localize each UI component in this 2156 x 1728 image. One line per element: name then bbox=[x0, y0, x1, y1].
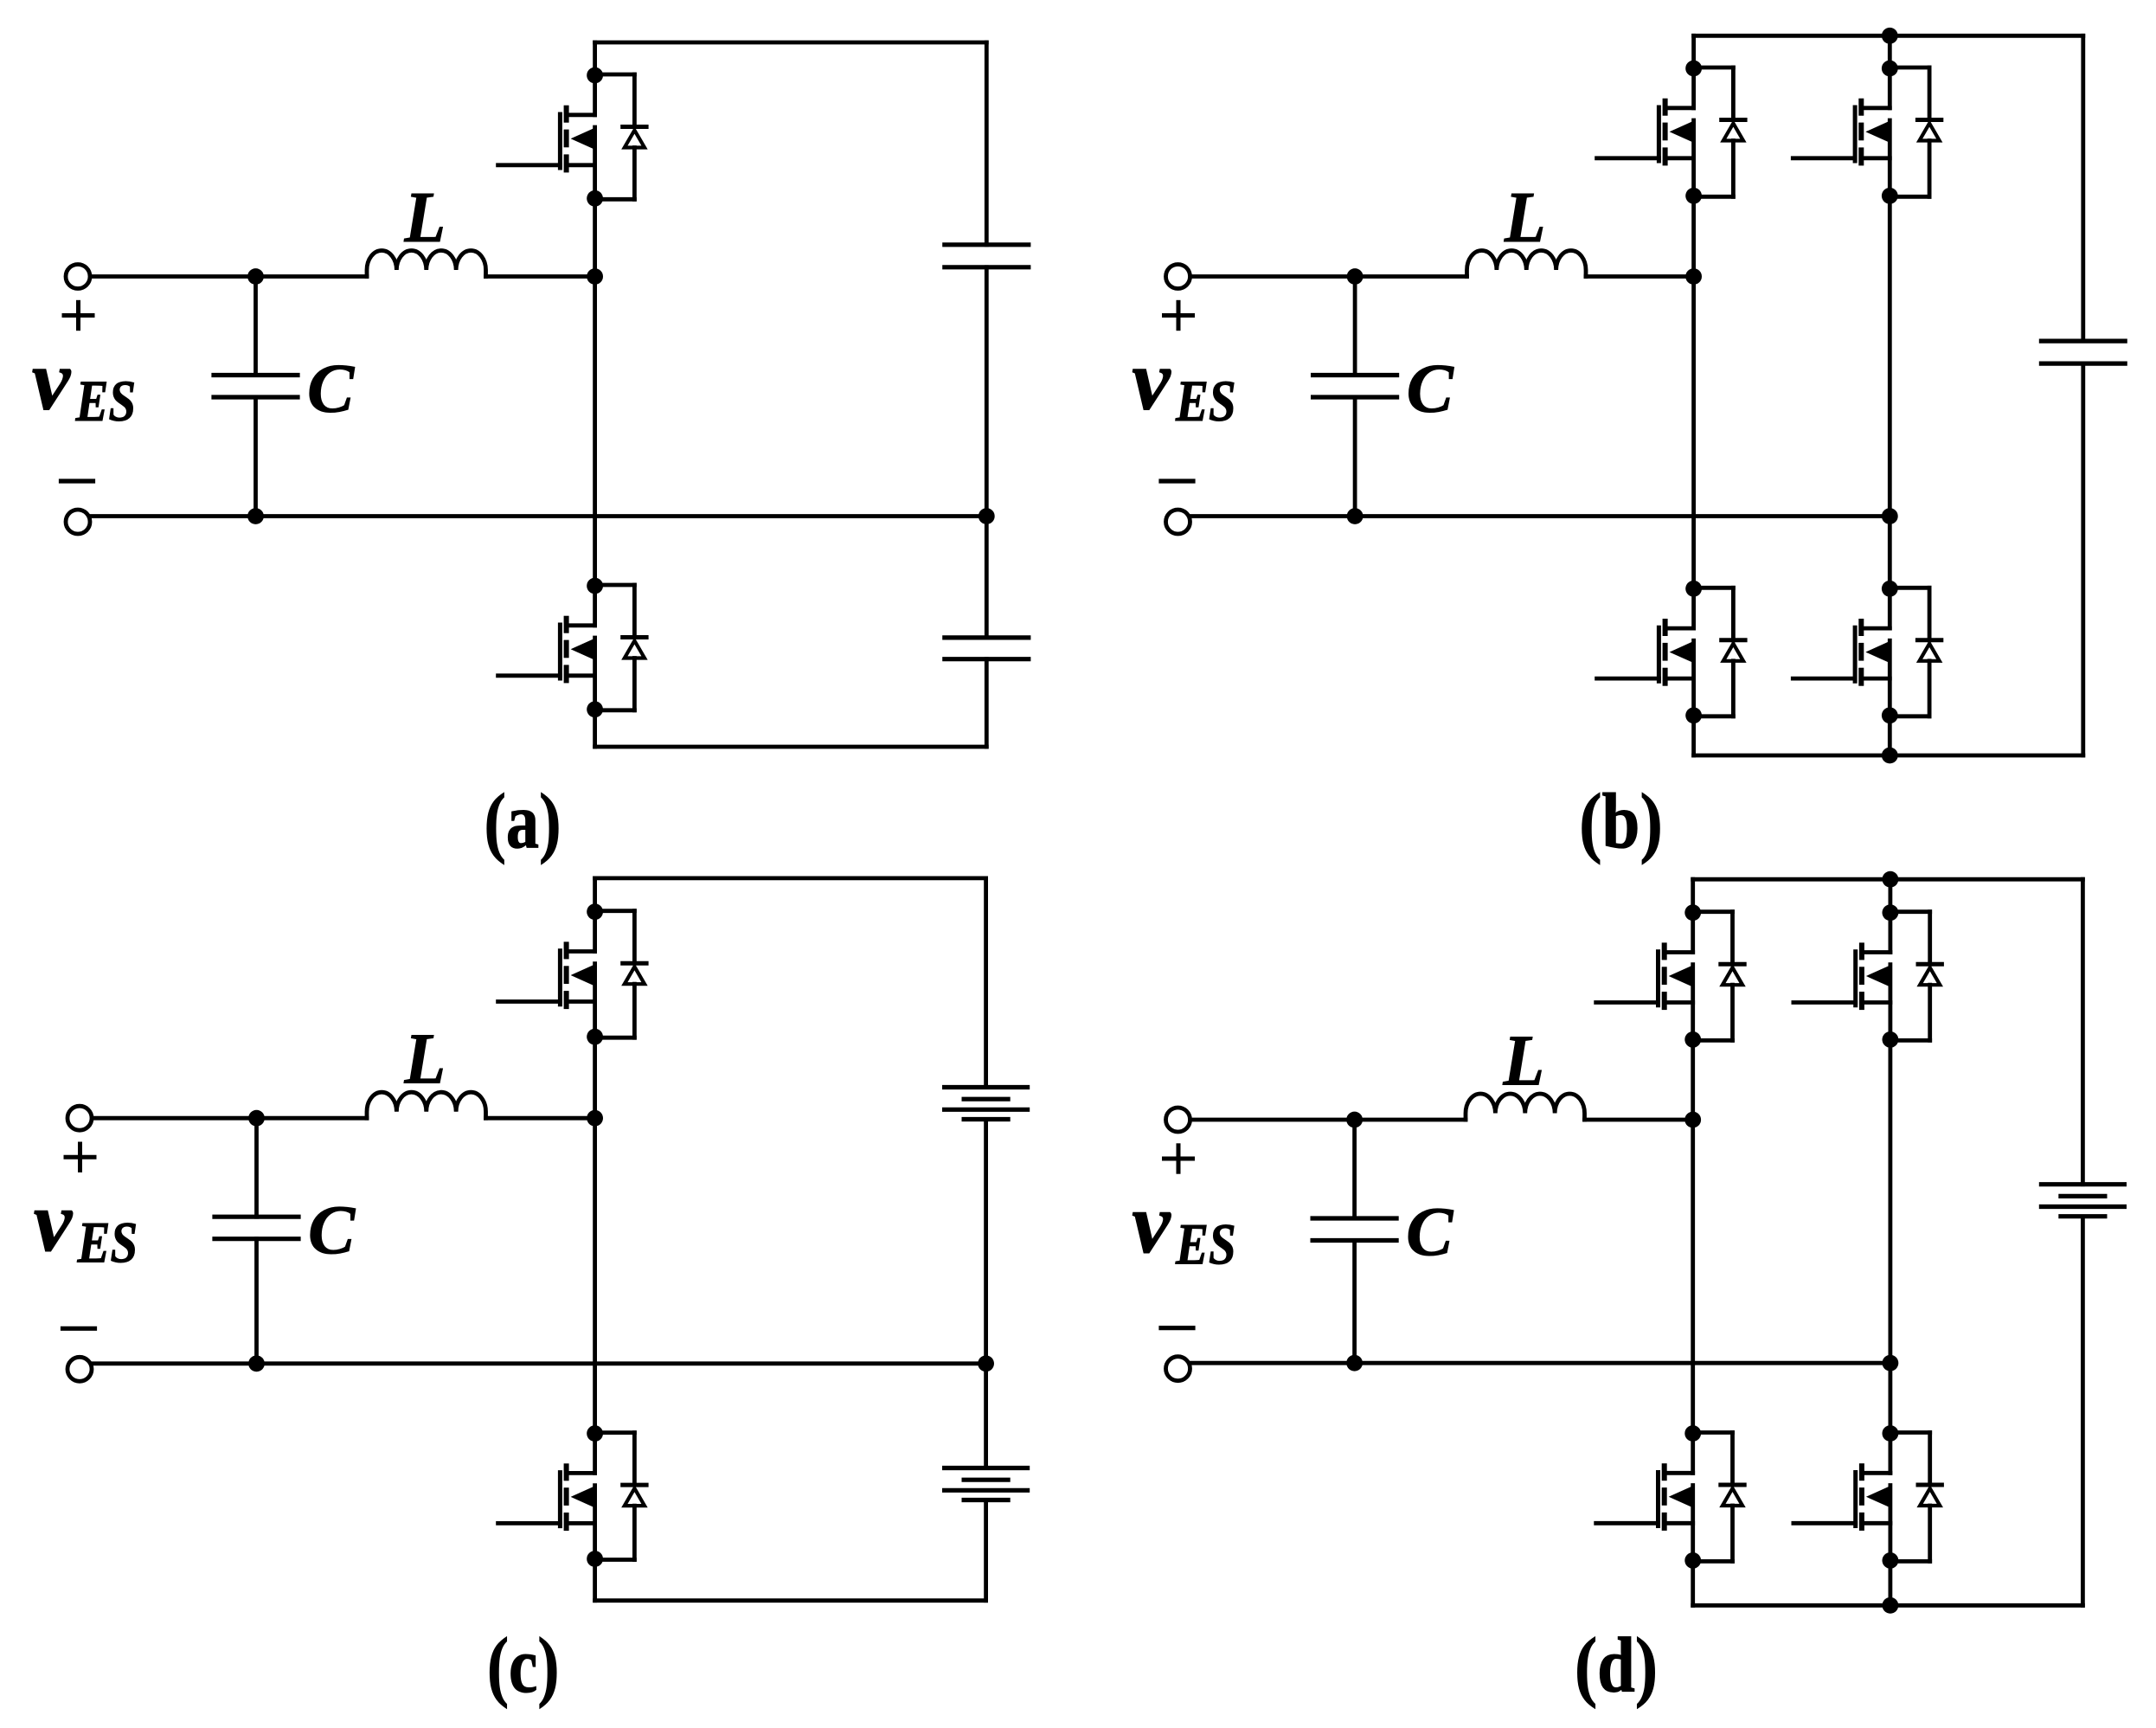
svg-text:ES: ES bbox=[1175, 368, 1235, 434]
svg-text:v: v bbox=[34, 1173, 74, 1269]
svg-text:L: L bbox=[404, 1019, 446, 1100]
svg-text:C: C bbox=[1407, 350, 1454, 427]
svg-text:ES: ES bbox=[1175, 1211, 1235, 1276]
svg-text:ES: ES bbox=[75, 368, 136, 434]
svg-text:v: v bbox=[32, 332, 72, 428]
svg-text:(b): (b) bbox=[1579, 778, 1663, 865]
svg-text:C: C bbox=[308, 1191, 356, 1269]
svg-text:L: L bbox=[404, 177, 446, 258]
svg-text:C: C bbox=[307, 350, 355, 427]
svg-text:v: v bbox=[1132, 332, 1171, 428]
svg-text:ES: ES bbox=[77, 1210, 138, 1275]
svg-text:L: L bbox=[1504, 177, 1545, 258]
svg-text:v: v bbox=[1132, 1175, 1171, 1271]
svg-text:C: C bbox=[1406, 1192, 1453, 1270]
svg-text:L: L bbox=[1503, 1021, 1544, 1102]
svg-text:(c): (c) bbox=[487, 1622, 560, 1709]
svg-text:(d): (d) bbox=[1575, 1622, 1658, 1709]
svg-text:(a): (a) bbox=[484, 778, 561, 865]
